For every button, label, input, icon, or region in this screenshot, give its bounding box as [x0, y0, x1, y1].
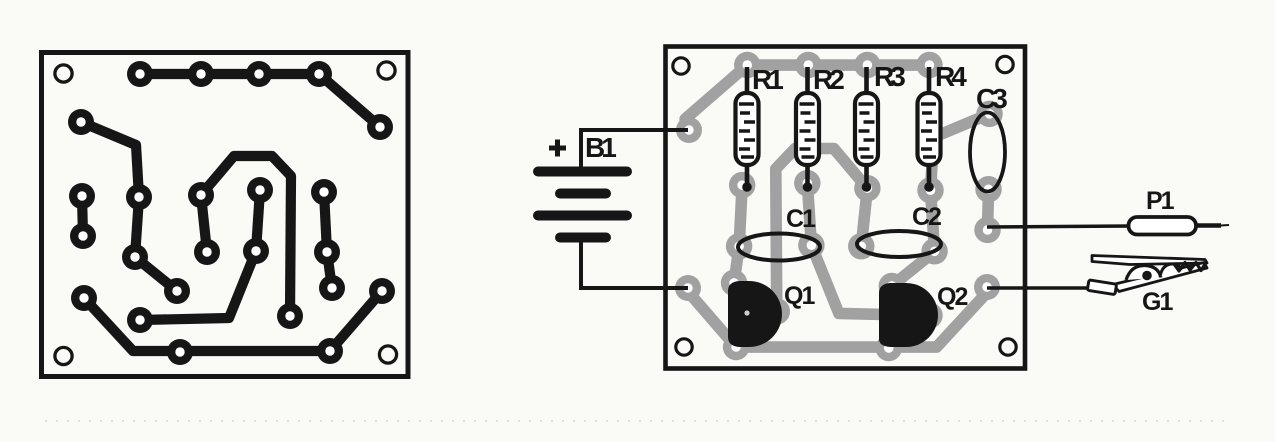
scan speckle line bottom	[45, 420, 1230, 422]
svg-text:P1: P1	[1146, 187, 1175, 215]
battery B1	[538, 130, 688, 288]
clip crimp	[1087, 280, 1116, 295]
svg-text:Q1: Q1	[784, 282, 815, 310]
mounting hole top-left	[55, 65, 72, 82]
PCB copper-side board (left)	[42, 53, 409, 377]
svg-text:B1: B1	[585, 132, 616, 163]
wire battery positive to board	[581, 130, 688, 168]
battery plate long 2	[538, 211, 627, 221]
clip teeth	[1174, 263, 1206, 272]
svg-text:C3: C3	[976, 83, 1007, 114]
battery plate long 1	[538, 167, 627, 177]
svg-text:R3: R3	[874, 61, 905, 92]
mounting hole bottom-right	[379, 346, 396, 363]
resistor R1	[736, 67, 759, 192]
copper traces seen through board (gray)	[675, 52, 1003, 361]
mounting hole top-right	[378, 62, 395, 79]
svg-text:C1: C1	[786, 205, 816, 233]
transistor Q2	[879, 283, 938, 347]
probe body	[1129, 217, 1197, 235]
clip upper jaw strip	[1092, 256, 1207, 265]
transistor Q1 shine mark	[744, 310, 749, 315]
mounting hole bottom-right	[1000, 339, 1016, 355]
clip lower jaw strip	[1113, 263, 1207, 292]
capacitor C1	[738, 234, 820, 261]
clip curl	[1160, 264, 1181, 277]
copper traces black	[68, 61, 395, 365]
clip eye	[1142, 271, 1152, 281]
capacitor C2	[857, 231, 941, 257]
wire to probe	[987, 226, 1130, 227]
svg-text:R2: R2	[813, 64, 844, 95]
board outline left	[42, 53, 409, 377]
battery plate short 2	[560, 233, 606, 243]
transistor Q1	[728, 281, 782, 347]
board outline right	[666, 47, 1026, 369]
resistor R4	[918, 67, 941, 192]
resistor R2	[796, 67, 819, 192]
mounting hole bottom-left	[676, 339, 692, 355]
wire to clip	[987, 286, 1092, 290]
alligator clip G1	[987, 256, 1207, 317]
svg-text:C2: C2	[912, 203, 941, 231]
clip arch	[1126, 265, 1161, 280]
mounting hole top-left	[673, 58, 689, 74]
svg-text:G1: G1	[1142, 288, 1173, 316]
svg-text:R1: R1	[752, 64, 783, 95]
probe P1	[987, 187, 1229, 235]
mounting hole top-right	[997, 56, 1013, 72]
capacitor C3	[970, 113, 1005, 192]
mounting hole bottom-left	[55, 347, 72, 364]
probe tip	[1196, 223, 1221, 227]
battery plate short 1	[560, 189, 606, 199]
svg-text:Q2: Q2	[937, 283, 967, 311]
wire battery negative to board	[581, 242, 688, 288]
plus sign	[549, 140, 566, 157]
resistor R3	[855, 67, 878, 192]
component-side board (right)	[666, 47, 1026, 369]
svg-text:R4: R4	[935, 61, 967, 92]
